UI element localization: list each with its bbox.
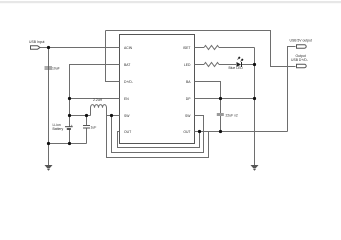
svg-text:2.2uH: 2.2uH xyxy=(93,98,103,102)
svg-text:USB Input: USB Input xyxy=(29,40,45,44)
svg-text:Battery: Battery xyxy=(53,127,64,131)
svg-text:D+/D-: D+/D- xyxy=(124,80,133,84)
svg-text:SW: SW xyxy=(185,114,191,118)
svg-text:USB 5V output: USB 5V output xyxy=(290,39,312,43)
svg-text:OUT: OUT xyxy=(183,130,190,134)
svg-text:ISET: ISET xyxy=(183,46,191,50)
svg-text:BAT: BAT xyxy=(124,63,130,67)
svg-text:ACIN: ACIN xyxy=(124,46,133,50)
svg-text:1uF: 1uF xyxy=(91,126,97,130)
svg-text:EN: EN xyxy=(124,97,129,101)
svg-text:OUT: OUT xyxy=(124,130,131,134)
svg-text:22uF x2: 22uF x2 xyxy=(226,114,238,118)
svg-text:10uF: 10uF xyxy=(52,67,60,71)
svg-text:USB D+/D-: USB D+/D- xyxy=(291,58,308,62)
svg-text:SW: SW xyxy=(124,114,130,118)
svg-text:Blue LED: Blue LED xyxy=(229,66,244,70)
svg-text:LED: LED xyxy=(184,63,191,67)
svg-text:+: + xyxy=(71,123,73,127)
svg-text:DP: DP xyxy=(186,97,191,101)
svg-text:BA: BA xyxy=(186,80,191,84)
